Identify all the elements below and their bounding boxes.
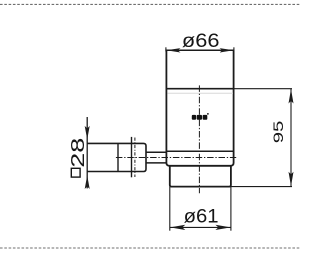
dimension ø61: extension lines [169, 187, 171, 231]
bracket hole centerline (vertical dash-dot) [134, 138, 136, 178]
bottom dashed page border [0, 247, 300, 249]
bracket internal edge [117, 143, 119, 171]
dimension ø61: right arrowhead [215, 225, 230, 230]
dimension 95: bottom arrowhead [289, 172, 294, 187]
dimension ø66: left arrowhead [166, 48, 180, 52]
bracket stem top [146, 151, 166, 153]
cup body outline (upper ø66 section) [166, 50, 233, 166]
dimension square28: dimension line on block left edge [86, 117, 88, 188]
top dashed page border [0, 3, 300, 5]
dimension 95: top arrowhead [289, 89, 294, 104]
vertical cup centerline (dash-dot) [198, 85, 200, 193]
dimension ø66: right arrowhead [220, 48, 234, 52]
lower cup section (ø61) [170, 166, 231, 186]
dimension ø61: dimension line [170, 226, 231, 228]
cup rim line (95 datum) [166, 88, 233, 90]
svg-text:95: 95 [270, 120, 286, 143]
holder ring top line across cup [166, 150, 233, 152]
cup top edge / ø66 dimension line [165, 49, 234, 51]
horizontal centerline (dash-dot) [116, 157, 236, 159]
bracket joint line [131, 137, 133, 177]
brand logo mark [192, 113, 209, 120]
dimension 95: dimension line [290, 89, 292, 187]
svg-text:28: 28 [68, 138, 88, 168]
dimension 95: bottom extension [231, 186, 292, 188]
bracket stem bottom [146, 162, 166, 164]
svg-text:ø61: ø61 [184, 206, 219, 228]
dimension ø61: left arrowhead [170, 225, 185, 230]
wall bracket block [87, 143, 146, 171]
svg-text:ø66: ø66 [182, 30, 220, 52]
dimension square28: down arrowhead [85, 126, 90, 140]
dimension ø66: extension ticks [165, 47, 167, 51]
faint inner rim line [168, 92, 234, 94]
dimension square28: up arrowhead [85, 175, 90, 189]
dimension 95: top extension (rim to line) [234, 88, 292, 90]
dimension square28: square symbol [71, 168, 80, 177]
